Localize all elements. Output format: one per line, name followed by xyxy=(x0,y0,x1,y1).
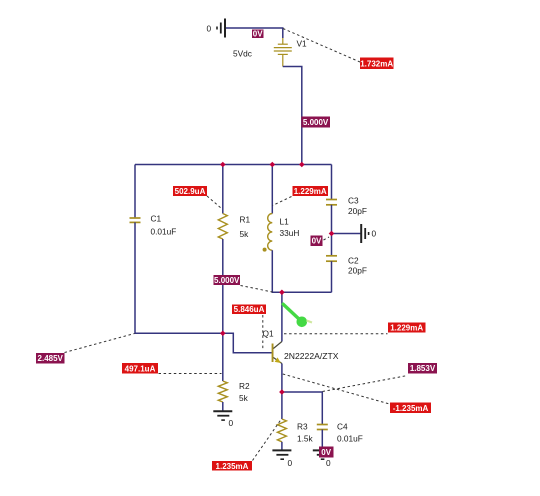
capacitor C2 xyxy=(326,256,337,261)
ground 0 below R2 xyxy=(213,411,232,420)
svg-text:1.853V: 1.853V xyxy=(410,364,436,373)
svg-text:C4: C4 xyxy=(337,422,348,432)
wire left column lower to base row xyxy=(135,222,223,333)
svg-text:5.000V: 5.000V xyxy=(214,276,240,285)
resistor R2 xyxy=(218,381,227,402)
wire C3 to mid junction xyxy=(331,205,333,234)
bias label 2.485V xyxy=(36,353,65,364)
svg-text:5.000V: 5.000V xyxy=(303,118,329,127)
wire base link to Q1 xyxy=(223,333,272,353)
bias label 1.853V xyxy=(408,363,437,374)
wire R1 top lead xyxy=(222,165,224,214)
svg-text:0: 0 xyxy=(229,418,234,428)
wire mid junction to ground tap xyxy=(332,233,361,235)
svg-text:L1: L1 xyxy=(280,217,290,227)
svg-text:5k: 5k xyxy=(240,229,250,239)
ground 0 right side xyxy=(361,224,368,243)
node junction base row xyxy=(220,331,226,337)
callout dash 1.229mA to L1 xyxy=(273,197,292,206)
bias label 0V mid right xyxy=(311,236,323,247)
svg-text:0: 0 xyxy=(207,24,212,34)
svg-text:R2: R2 xyxy=(239,381,250,391)
svg-text:5k: 5k xyxy=(239,393,249,403)
capacitor C1 xyxy=(130,218,141,222)
svg-text:2N2222A/ZTX: 2N2222A/ZTX xyxy=(284,351,339,361)
svg-text:Q1: Q1 xyxy=(263,329,274,339)
svg-text:0.01uF: 0.01uF xyxy=(151,227,177,237)
capacitor C4 xyxy=(317,425,328,430)
svg-text:1.5k: 1.5k xyxy=(297,434,314,444)
wire right column top (rail to C3) xyxy=(331,165,333,200)
current label 1.229mA lower xyxy=(388,323,426,333)
svg-text:C1: C1 xyxy=(151,214,162,224)
current label 497.1uA xyxy=(122,363,158,374)
svg-text:R1: R1 xyxy=(240,215,251,225)
svg-text:C2: C2 xyxy=(348,256,359,266)
bias label 0V top xyxy=(252,29,264,38)
current label 5.846uA xyxy=(232,305,266,315)
svg-text:20pF: 20pF xyxy=(348,206,367,216)
ground 0 top-left xyxy=(217,19,225,38)
transistor Q1 xyxy=(272,342,282,364)
callout dash emitter to -1.235mA xyxy=(283,374,390,404)
current label 1.229mA upper xyxy=(293,186,329,196)
callout dash emitter row to 1.853V xyxy=(323,376,408,392)
callout dash collector to 1.229mA xyxy=(284,333,388,335)
wire emitter lead xyxy=(281,364,283,393)
svg-text:0.01uF: 0.01uF xyxy=(337,434,363,444)
svg-text:502.9uA: 502.9uA xyxy=(175,187,206,196)
wire collector lead xyxy=(281,292,283,341)
current label 1.235mA xyxy=(212,461,252,471)
svg-text:V1: V1 xyxy=(297,39,308,49)
wire R2 top lead xyxy=(222,333,224,381)
wire mid junction to C2 xyxy=(331,234,333,256)
svg-text:5.846uA: 5.846uA xyxy=(234,305,265,314)
svg-text:0V: 0V xyxy=(312,237,322,246)
callout dash 1.235mA to R3 xyxy=(253,420,282,461)
wire top rail from ground to V1 xyxy=(226,28,283,38)
svg-text:0V: 0V xyxy=(321,448,331,457)
current label -1.235mA xyxy=(390,403,431,414)
callout dash 5.846uA to base wire xyxy=(262,315,264,351)
wire R1 bottom lead xyxy=(222,239,224,333)
svg-text:5Vdc: 5Vdc xyxy=(233,49,252,59)
callout dash 502.9uA to R1 xyxy=(207,196,221,208)
current label 502.9uA xyxy=(173,186,207,196)
node junction emitter row xyxy=(279,389,285,395)
wire emitter row to C4 xyxy=(282,392,322,424)
svg-text:1.229mA: 1.229mA xyxy=(294,187,327,196)
callout dash 5.000V to collector row corner xyxy=(241,286,273,293)
svg-text:C3: C3 xyxy=(348,196,359,206)
wire V1 to top rail xyxy=(283,67,302,165)
svg-text:0: 0 xyxy=(326,458,331,468)
bias label 5.000V lower xyxy=(214,275,241,285)
bias label 5.000V upper xyxy=(301,117,330,128)
svg-text:33uH: 33uH xyxy=(280,228,300,238)
callout dash 497.1uA to R2 xyxy=(159,373,222,375)
svg-text:0: 0 xyxy=(372,229,377,239)
resistor R3 xyxy=(277,419,286,442)
svg-text:20pF: 20pF xyxy=(348,266,367,276)
wire top horizontal rail xyxy=(135,164,332,166)
wire L1 bottom lead to collector row xyxy=(272,250,331,292)
svg-text:0V: 0V xyxy=(253,29,263,38)
node junction C2-C3-ground xyxy=(329,231,335,237)
svg-text:497.1uA: 497.1uA xyxy=(125,364,156,373)
wire R2 bottom lead xyxy=(222,402,224,411)
svg-text:1.235mA: 1.235mA xyxy=(216,462,249,471)
svg-text:0: 0 xyxy=(288,458,293,468)
callout dash 0V to C2-C3 junction xyxy=(324,237,330,240)
svg-text:2.485V: 2.485V xyxy=(38,354,64,363)
current label 1.732mA xyxy=(360,58,394,70)
battery V1 xyxy=(274,38,292,67)
ground 0 below C4 xyxy=(313,450,332,459)
callout dash to 1.732mA xyxy=(283,29,360,63)
resistor R1 xyxy=(218,214,227,240)
inductor L1 pin-1 dot xyxy=(263,248,267,252)
wire left column upper xyxy=(134,165,136,218)
node junction rail-V1 xyxy=(299,162,305,168)
wire C2 to collector row xyxy=(331,261,333,292)
node junction rail-R1 xyxy=(220,162,226,168)
node junction rail-L1 xyxy=(270,162,276,168)
callout dash 2.485V to base corner xyxy=(65,334,135,353)
wire R3 top lead xyxy=(281,392,283,419)
wire R3 bottom lead xyxy=(281,442,283,450)
wire C4 bottom lead xyxy=(321,430,323,451)
capacitor C3 xyxy=(326,200,337,205)
wire L1 top lead xyxy=(271,165,273,214)
svg-text:R3: R3 xyxy=(297,422,308,432)
svg-text:1.732mA: 1.732mA xyxy=(360,60,393,69)
probe cursor green xyxy=(283,304,312,327)
svg-text:-1.235mA: -1.235mA xyxy=(393,404,429,413)
node junction collector row xyxy=(279,290,285,296)
bias label 0V bottom xyxy=(319,447,334,458)
svg-text:1.229mA: 1.229mA xyxy=(390,324,423,333)
ground 0 below R3 xyxy=(272,450,291,459)
inductor L1 xyxy=(268,214,273,251)
